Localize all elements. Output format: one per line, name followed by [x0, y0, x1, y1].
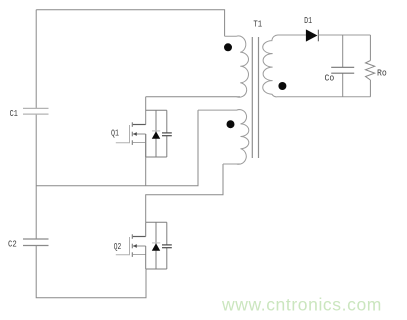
svg-text:Q1: Q1 [111, 127, 119, 138]
svg-text:Q2: Q2 [114, 241, 122, 252]
svg-text:Ro: Ro [377, 67, 387, 78]
svg-text:D1: D1 [304, 15, 312, 26]
svg-text:Co: Co [325, 73, 335, 84]
svg-text:C2: C2 [8, 238, 17, 249]
svg-text:C1: C1 [10, 108, 18, 119]
svg-text:www.cntronics.com: www.cntronics.com [221, 295, 382, 315]
svg-text:T1: T1 [253, 18, 262, 29]
